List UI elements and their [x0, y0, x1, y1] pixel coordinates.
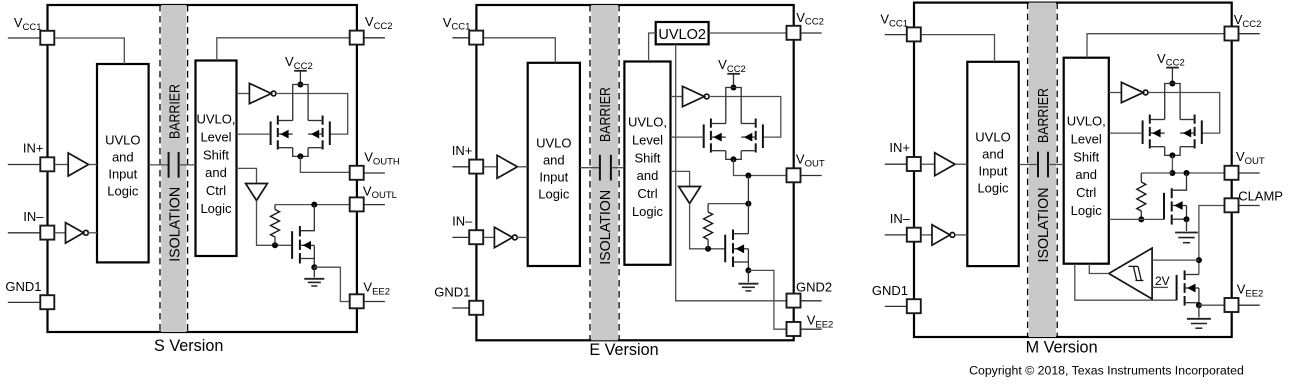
output PMOS Q1 (left) gate bar	[270, 121, 272, 145]
wire: level-shift block to gate buffer	[671, 96, 683, 98]
Q4 source stub	[1185, 302, 1199, 304]
Q1 drain stub	[1150, 119, 1165, 121]
wire: block to low-side inverter	[671, 171, 690, 186]
input inverter (IN-)	[494, 227, 512, 248]
outer box (S version IC boundary)	[48, 5, 357, 332]
Q4 drain stub	[1185, 274, 1199, 276]
junction: supply node	[1169, 81, 1175, 87]
pin IN-	[885, 234, 907, 236]
Q3 body stub with arrow	[300, 244, 314, 246]
input buffer (IN+)	[68, 153, 88, 176]
junction: Q4 source node	[1196, 302, 1202, 308]
Q3 source stub	[733, 261, 748, 263]
isolation capacitor C1 plate left	[599, 155, 601, 181]
Q3 source stub	[1172, 218, 1187, 220]
junction: resistor/gate node	[1138, 216, 1144, 222]
svg-text:Level: Level	[200, 129, 231, 144]
Q1 source stub	[278, 147, 293, 149]
ground (S output stage)	[304, 278, 324, 280]
junction: PMOS pair output node	[1169, 152, 1175, 158]
svg-text:Logic: Logic	[538, 187, 570, 202]
Q4 body stub with arrow	[1185, 287, 1199, 289]
Q2 body stub with arrow	[308, 133, 323, 135]
wire: block to low-side inverter	[237, 168, 257, 183]
isolation capacitor C1 plate right	[610, 155, 612, 181]
Q2 source stub	[308, 147, 323, 149]
wire: gate buffer output to high-side gate	[709, 97, 781, 138]
block: UVLO2	[656, 22, 709, 44]
junction: gate/resistor node	[272, 242, 278, 248]
pin VOUTL	[364, 204, 385, 206]
pulldown NMOS Q3 gate bar	[1163, 193, 1165, 220]
output PMOS Q2 (right) gate bar	[762, 124, 764, 148]
Q3 drain stub	[733, 233, 748, 235]
svg-text:Copyright © 2018, Texas Instru: Copyright © 2018, Texas Instruments Inco…	[969, 364, 1244, 378]
svg-text:and: and	[112, 150, 134, 165]
svg-text:UVLO: UVLO	[975, 130, 1010, 145]
junction: PMOS pair output node	[731, 156, 737, 162]
wire: VCC2 pin to level-shift block top	[1087, 34, 1225, 58]
wire: source node to ground symbol	[313, 267, 315, 277]
Q2 body stub with arrow	[741, 136, 756, 138]
input inverter (IN-)	[66, 223, 84, 244]
wire: level-shift block to gate buffer	[237, 93, 250, 95]
VCC2 supply tick	[727, 73, 740, 75]
wire: IN+ to input buffer	[921, 163, 935, 165]
svg-text:GND1: GND1	[434, 285, 470, 300]
svg-text:ISOLATION: ISOLATION	[597, 190, 614, 265]
pin VCC2 (M)	[1239, 33, 1260, 35]
input inverter (IN-)	[932, 225, 950, 246]
pin VOUT (E)	[801, 175, 822, 177]
svg-text:E Version: E Version	[589, 341, 658, 359]
wire: block bottom to clamp FET gate	[1075, 264, 1177, 301]
wire: isolation capacitor to level-shift block	[611, 167, 625, 169]
Q2 source stub	[1180, 146, 1195, 148]
Q3 body-source rail	[747, 249, 749, 262]
wire: level-shift block to gate buffer	[1109, 92, 1122, 94]
svg-text:UVLO,: UVLO,	[1067, 114, 1106, 129]
wire: UVLO2 to VCC2 pin	[709, 32, 787, 34]
pin IN+	[452, 166, 469, 168]
output PMOS Q1 (left) gate bar	[1142, 120, 1144, 144]
clamp NMOS Q4 gate bar	[1176, 275, 1178, 300]
low-side inverter (down triangle)	[246, 184, 268, 201]
VCC2 supply tick	[1166, 67, 1179, 69]
svg-text:Shift: Shift	[634, 150, 660, 165]
pin GND2	[801, 300, 822, 302]
svg-text:Input: Input	[108, 167, 137, 182]
pin CLAMP	[1239, 205, 1260, 207]
wire: VCC2 pin to level-shift block top	[217, 38, 350, 61]
2V reference stub	[1152, 286, 1168, 288]
svg-text:IN–: IN–	[23, 209, 44, 224]
wire: Q3 source down to source node	[747, 262, 749, 270]
svg-text:UVLO,: UVLO,	[628, 115, 667, 130]
wire: source node to VEE2	[748, 270, 786, 329]
input buffer (IN+)	[497, 155, 517, 178]
wire: VCC1 to UVLO block top	[55, 38, 125, 64]
pin VCC2 (E)	[801, 32, 822, 34]
wire: UVLO block to isolation capacitor	[1019, 164, 1038, 166]
isolation capacitor C1 plate right	[178, 152, 180, 178]
wire: buffer to UVLO block	[517, 166, 527, 168]
pin VEE2 (E)	[801, 328, 822, 330]
junction: comparator input on CLAMP line	[1196, 257, 1202, 263]
wire: supply to PMOS pair	[733, 74, 735, 87]
NMOS drain rail to VOUT node	[747, 176, 749, 234]
gate drive buffer U2 (inverting)	[1121, 82, 1143, 102]
block: UVLO, Level Shift and Ctrl Logic	[624, 62, 670, 265]
Q4 body-source rail	[1198, 288, 1200, 303]
block: UVLO and Input Logic	[528, 63, 580, 266]
svg-text:UVLO: UVLO	[105, 133, 140, 148]
svg-text:Logic: Logic	[632, 204, 664, 219]
PMOS pair top rails	[726, 88, 741, 124]
Q3 body stub with arrow	[1172, 205, 1187, 207]
svg-text:Level: Level	[632, 132, 663, 147]
svg-text:Ctrl: Ctrl	[637, 186, 657, 201]
wire: IN+ to input buffer	[55, 164, 68, 166]
output PMOS Q2 (right) gate bar	[1201, 120, 1203, 144]
pin VOUTH	[364, 172, 385, 174]
wire: UVLO block to isolation capacitor	[580, 167, 600, 169]
Q1 body stub with arrow	[1150, 132, 1165, 134]
Q1 body stub with arrow	[711, 136, 726, 138]
wire: UVLO2 bottom to GND2	[676, 44, 787, 301]
svg-text:IN–: IN–	[890, 211, 911, 226]
input buffer (IN+)	[935, 153, 955, 176]
svg-text:Ctrl: Ctrl	[1076, 185, 1096, 200]
barrier dashed line left	[159, 5, 161, 332]
svg-text:Logic: Logic	[107, 184, 139, 199]
wire: Q4 source to ground	[1198, 305, 1200, 317]
Q2 channel	[755, 119, 757, 128]
ground (pulldown)	[1175, 232, 1198, 234]
barrier dashed line left	[589, 5, 591, 340]
Q1 channel	[710, 119, 712, 128]
svg-text:BARRIER: BARRIER	[166, 84, 183, 139]
Q3 drain stub and rail to VOUTL	[300, 205, 314, 231]
junction: VOUT/pulldown drain node	[1184, 170, 1190, 176]
Q2 channel	[322, 116, 324, 125]
wire: Q3 source down to source node	[313, 259, 315, 268]
svg-text:UVLO,: UVLO,	[196, 112, 235, 127]
wire: IN+ to input buffer	[484, 166, 498, 168]
wire: inverter to UVLO block	[88, 232, 97, 234]
wire: block to Q1 gate	[237, 133, 271, 135]
pin GND1	[8, 301, 41, 303]
block: UVLO and Input Logic	[967, 62, 1018, 266]
block: UVLO, Level Shift and Ctrl Logic	[196, 61, 237, 257]
PMOS pair bottom rails	[1165, 147, 1180, 156]
barrier dashed line right	[187, 5, 189, 332]
pin VEE2 (S)	[364, 301, 385, 303]
svg-text:BARRIER: BARRIER	[597, 87, 614, 142]
wire: CLAMP pin to clamp FET drain	[1199, 206, 1225, 275]
Q2 drain stub	[741, 123, 756, 125]
pin VOUT (M)	[1239, 172, 1260, 174]
pin IN+	[885, 163, 907, 165]
wire: VOUT node to resistor top	[1141, 172, 1172, 174]
Q3 channel	[1171, 188, 1173, 198]
Q1 drain stub	[711, 123, 726, 125]
wire: inverter output down to gate node	[690, 204, 726, 249]
svg-text:GND2: GND2	[796, 280, 832, 295]
svg-text:IN+: IN+	[23, 141, 44, 156]
low-side NMOS Q3 gate bar	[291, 231, 293, 259]
wire: buffer to UVLO block	[89, 164, 98, 166]
wire: UVLO block to isolation capacitor	[149, 164, 169, 166]
Q3 body-source rail	[1186, 206, 1188, 220]
junction: Q3 source node	[1184, 216, 1190, 222]
wire: source node to VEE2	[314, 267, 349, 301]
Q1 channel	[1149, 115, 1151, 124]
pin IN+	[8, 164, 41, 166]
Q2 source stub	[741, 150, 756, 152]
svg-text:and: and	[982, 147, 1004, 162]
resistor R1 (gate sense)	[1140, 173, 1142, 182]
PMOS pair top rails	[1165, 84, 1180, 120]
svg-text:and: and	[543, 153, 565, 168]
svg-text:Logic: Logic	[1071, 203, 1103, 218]
Q2 channel	[1194, 115, 1196, 124]
pin VCC2 (S)	[364, 37, 385, 39]
wire: inverter to UVLO block	[955, 234, 968, 236]
Q1 drain stub	[278, 120, 293, 122]
svg-text:IN–: IN–	[452, 213, 473, 228]
wire: inverter output down to gate node	[257, 201, 293, 246]
wire: VOUTL net	[275, 204, 350, 206]
output PMOS Q2 (right) gate bar	[329, 121, 331, 145]
hysteresis symbol	[1128, 266, 1143, 280]
PMOS pair bottom rails	[293, 148, 308, 157]
junction: supply node	[297, 82, 303, 88]
svg-text:Input: Input	[539, 170, 568, 185]
wire: PMOS output node to VOUT	[734, 159, 787, 175]
resistor R1 (gate pulldown)	[274, 205, 276, 210]
barrier dashed line right	[618, 5, 620, 340]
svg-text:M Version: M Version	[1026, 338, 1098, 356]
junction: NMOS drain on VOUTL net	[311, 202, 317, 208]
low-side inverter (down triangle)	[679, 187, 701, 204]
svg-text:and: and	[205, 165, 227, 180]
gate drive buffer U2 (inverting)	[683, 86, 705, 106]
Q4 channel	[1184, 270, 1186, 280]
wire: buffer to UVLO block	[955, 163, 967, 165]
isolation barrier band	[161, 5, 186, 332]
wire: PMOS output node to VOUTH	[300, 156, 349, 172]
wire: Q4 source to VEE2	[1199, 304, 1225, 306]
svg-text:2V: 2V	[1155, 274, 1170, 288]
wire: comparator + input from CLAMP line	[1152, 259, 1199, 261]
wire: isolation capacitor to level-shift block	[1048, 164, 1064, 166]
wire: resistor top to NMOS drain rail	[708, 203, 748, 205]
PMOS pair bottom rails	[726, 151, 741, 160]
svg-text:GND1: GND1	[5, 279, 41, 294]
wire: IN- to inverter	[921, 234, 932, 236]
junction: Q3 source node	[745, 267, 751, 273]
wire: gate buffer output to high-side gate	[276, 94, 348, 135]
wire: source node to ground symbol	[747, 270, 749, 282]
wire: inverter to UVLO block	[517, 236, 528, 238]
svg-text:Logic: Logic	[200, 201, 232, 216]
Q1 channel	[277, 116, 279, 125]
pin VEE2 (M)	[1239, 304, 1260, 306]
Q3 channel	[732, 230, 734, 240]
block: UVLO and Input Logic	[97, 64, 149, 262]
PMOS pair top rails	[293, 85, 308, 121]
wire: gate buffer output to high-side gate	[1148, 93, 1220, 134]
wire: IN- to inverter	[484, 236, 495, 238]
svg-text:BARRIER: BARRIER	[1035, 88, 1052, 143]
wire: VCC1 to UVLO block top	[484, 38, 556, 63]
junction: supply node	[731, 85, 737, 91]
Q3 channel	[299, 226, 301, 236]
wire: block to pulldown gate	[1109, 218, 1164, 220]
svg-text:S Version: S Version	[154, 337, 223, 355]
svg-text:Logic: Logic	[977, 181, 1009, 196]
pin VCC1	[8, 37, 41, 39]
Q2 body stub with arrow	[1180, 132, 1195, 134]
ground (E output stage)	[738, 283, 758, 285]
isolation barrier band	[1029, 3, 1056, 337]
svg-text:Level: Level	[1071, 131, 1102, 146]
resistor R1 (gate pulldown)	[707, 204, 709, 212]
Q3 source stub	[300, 258, 314, 260]
gate drive buffer U2 (inverting)	[249, 83, 271, 103]
ground (clamp)	[1187, 318, 1211, 320]
svg-text:ISOLATION: ISOLATION	[166, 187, 183, 262]
wire: supply to PMOS pair	[299, 71, 301, 84]
svg-text:Shift: Shift	[203, 147, 229, 162]
barrier dashed line left	[1027, 3, 1029, 337]
wire: VCC1 to UVLO block top	[921, 35, 994, 62]
svg-text:IN+: IN+	[889, 140, 910, 155]
outer box (M version IC boundary)	[914, 3, 1232, 337]
VCC2 supply tick	[294, 70, 307, 72]
junction: resistor/drain rail	[745, 201, 751, 207]
pin IN-	[452, 236, 469, 238]
Q3 body-source rail	[313, 245, 315, 258]
Q1 source stub	[1150, 146, 1165, 148]
barrier dashed line right	[1056, 3, 1058, 337]
outer box (E version IC boundary)	[476, 5, 793, 340]
wire: isolation capacitor to level-shift block	[179, 164, 196, 166]
svg-text:Shift: Shift	[1073, 149, 1099, 164]
low-side NMOS Q3 gate bar	[724, 235, 726, 263]
Q1 source stub	[711, 150, 726, 152]
comparator (left-pointing with hysteresis)	[1109, 248, 1152, 299]
svg-text:GND1: GND1	[872, 283, 908, 298]
isolation capacitor C1 plate right	[1047, 152, 1049, 178]
isolation capacitor C1 plate left	[168, 152, 170, 178]
wire: IN- to inverter	[55, 232, 66, 234]
junction: VOUT node	[745, 173, 751, 179]
wire: block to Q1 gate	[671, 136, 704, 138]
svg-text:UVLO: UVLO	[536, 136, 571, 151]
svg-text:ISOLATION: ISOLATION	[1035, 188, 1052, 263]
svg-text:and: and	[637, 168, 659, 183]
block: UVLO, Level Shift and Ctrl Logic	[1064, 58, 1109, 264]
Q2 drain stub	[308, 120, 323, 122]
wire: UVLO2 to level-shift block top	[649, 33, 656, 62]
svg-text:CLAMP: CLAMP	[1238, 189, 1283, 204]
wire: comparator output to block	[1089, 264, 1109, 274]
wire: Q3 source to ground	[1186, 219, 1188, 231]
Q3 body stub with arrow	[733, 248, 748, 250]
isolation barrier band	[591, 5, 618, 340]
pin VCC1	[452, 37, 469, 39]
Q1 body stub with arrow	[278, 133, 293, 135]
pin VCC1	[885, 34, 907, 36]
svg-text:Ctrl: Ctrl	[206, 183, 226, 198]
Q3 drain stub and rail to VOUT	[1172, 173, 1187, 190]
output PMOS Q1 (left) gate bar	[703, 124, 705, 148]
junction: VOUT/resistor node	[1169, 170, 1175, 176]
junction: PMOS pair output node	[297, 153, 303, 159]
pin GND1	[885, 305, 907, 307]
pin IN-	[8, 232, 41, 234]
wire: supply to PMOS pair	[1171, 68, 1173, 83]
svg-text:and: and	[1075, 167, 1097, 182]
wire: block to Q1 gate	[1109, 132, 1143, 134]
svg-text:IN+: IN+	[452, 143, 473, 158]
wire: PMOS output node to VOUT	[1172, 155, 1224, 173]
isolation capacitor C1 plate left	[1037, 152, 1039, 178]
junction: gate/resistor node	[705, 246, 711, 252]
svg-text:UVLO2: UVLO2	[658, 27, 706, 43]
junction: Q3 source node	[311, 264, 317, 270]
pin GND1	[452, 307, 469, 309]
svg-text:Input: Input	[979, 164, 1008, 179]
Q2 drain stub	[1180, 119, 1195, 121]
